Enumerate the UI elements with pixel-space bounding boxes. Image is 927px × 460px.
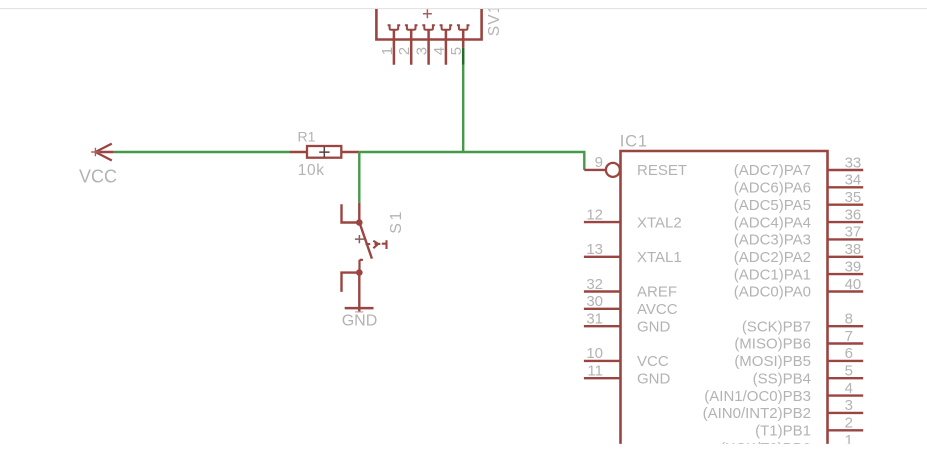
svg-text:AREF: AREF: [637, 284, 677, 301]
supply VCC pin: [95, 151, 113, 153]
wire junction to switch: [358, 152, 360, 203]
svg-text:10: 10: [586, 345, 603, 362]
IC1 pin 32 stub: [584, 290, 621, 292]
switch S1 moving terminal riser: [360, 260, 363, 273]
svg-text:34: 34: [845, 172, 862, 189]
svg-text:R1: R1: [298, 128, 316, 144]
IC1 pin 37 stub: [828, 238, 864, 240]
IC1 pin 38 stub: [828, 256, 864, 258]
IC1 pin 30 stub: [584, 308, 621, 310]
svg-text:(ADC3)PA3: (ADC3)PA3: [734, 232, 811, 249]
IC1 pin 9 inversion bubble: [606, 163, 620, 177]
svg-text:38: 38: [845, 241, 862, 258]
IC1 pin 9 RESET stub: [584, 169, 606, 171]
IC1 pin 39 stub: [828, 273, 864, 275]
IC1 pin 8 stub: [828, 325, 864, 327]
svg-text:GND: GND: [637, 318, 671, 335]
svg-text:3: 3: [845, 397, 853, 414]
svg-text:7: 7: [845, 328, 853, 345]
svg-text:13: 13: [586, 241, 603, 258]
svg-text:35: 35: [845, 189, 862, 206]
switch S1 bottom contact: [342, 273, 360, 292]
svg-text:VCC: VCC: [79, 167, 117, 187]
svg-text:GND: GND: [637, 370, 671, 387]
IC1 pin 1 stub (clipped): [828, 446, 864, 448]
svg-text:12: 12: [586, 206, 603, 223]
wire VCC to R1: [113, 151, 289, 153]
svg-text:1: 1: [845, 432, 853, 449]
svg-text:32: 32: [586, 276, 603, 293]
svg-text:VCC: VCC: [637, 353, 669, 370]
IC1 pin 12 stub: [584, 221, 621, 223]
connector pin 3 cup: [422, 25, 435, 29]
svg-text:(ADC7)PA7: (ADC7)PA7: [734, 162, 811, 179]
svg-text:GND: GND: [342, 313, 378, 330]
IC1 pin 33 stub: [828, 169, 864, 171]
supply VCC origin cross: [91, 148, 100, 157]
svg-text:XTAL2: XTAL2: [637, 214, 682, 231]
IC1 pin 3 stub: [828, 412, 864, 414]
switch S1 bottom junction dot: [356, 269, 363, 276]
svg-text:(XCK/T0)PB0: (XCK/T0)PB0: [720, 440, 811, 457]
svg-text:3: 3: [414, 47, 431, 55]
svg-text:(AIN0/INT2)PB2: (AIN0/INT2)PB2: [703, 405, 811, 422]
svg-text:39: 39: [845, 258, 862, 275]
resistor R1 origin cross: [319, 147, 329, 157]
svg-text:30: 30: [586, 293, 603, 310]
switch S1 lever: [360, 224, 372, 259]
svg-text:(SCK)PB7: (SCK)PB7: [742, 318, 811, 335]
IC1 pin 35 stub: [828, 203, 864, 205]
connector pin 5 cup: [457, 25, 470, 29]
connector pin 1 lead: [393, 30, 396, 65]
IC1 pin 13 stub: [584, 256, 621, 258]
svg-text:8: 8: [845, 311, 853, 328]
connector pin 5 lead: [462, 30, 465, 48]
svg-text:(ADC5)PA5: (ADC5)PA5: [734, 197, 811, 214]
switch S1 top junction dot: [356, 219, 363, 226]
connector pin 1 cup: [388, 25, 401, 29]
connector pin 4 lead: [445, 30, 448, 65]
IC1 pin 40 stub: [828, 290, 864, 292]
IC1 pin 31 stub: [584, 325, 621, 327]
svg-text:S1: S1: [388, 209, 405, 234]
IC1 body box: [619, 151, 829, 460]
svg-text:(ADC6)PA6: (ADC6)PA6: [734, 180, 811, 197]
switch S1 origin cross: [355, 235, 364, 243]
svg-text:(MOSI)PB5: (MOSI)PB5: [734, 353, 811, 370]
svg-text:(ADC2)PA2: (ADC2)PA2: [734, 249, 811, 266]
connector SV1 body: [375, 9, 483, 41]
svg-text:5: 5: [845, 363, 853, 380]
svg-text:(ADC4)PA4: (ADC4)PA4: [734, 214, 811, 231]
svg-text:6: 6: [845, 345, 853, 362]
svg-text:2: 2: [396, 47, 413, 55]
ground GND bar: [345, 307, 374, 310]
IC1 pin 10 stub: [584, 360, 621, 362]
svg-text:1: 1: [379, 47, 396, 55]
switch S1 top pin: [358, 203, 360, 223]
IC1 pin 4 stub: [828, 394, 864, 396]
svg-text:RESET: RESET: [637, 162, 687, 179]
ground GND origin cross: [355, 311, 363, 313]
connector SV1 origin cross: [423, 9, 432, 18]
svg-text:40: 40: [845, 276, 862, 293]
resistor R1 body: [307, 146, 341, 158]
IC1 pin 6 stub: [828, 360, 864, 362]
IC1 pin 5 stub: [828, 377, 864, 379]
svg-text:(AIN1/OC0)PB3: (AIN1/OC0)PB3: [704, 388, 811, 405]
IC1 pin 11 stub: [584, 377, 621, 379]
IC1 pin 34 stub: [828, 186, 864, 188]
connector pin 2 lead: [410, 30, 413, 65]
resistor R1 right pin: [341, 151, 359, 153]
resistor R1 left pin: [289, 151, 307, 153]
svg-text:(ADC0)PA0: (ADC0)PA0: [734, 284, 811, 301]
svg-text:XTAL1: XTAL1: [637, 249, 682, 266]
connector pin 4 cup: [440, 25, 453, 29]
svg-text:(MISO)PB6: (MISO)PB6: [734, 336, 811, 353]
svg-text:(T1)PB1: (T1)PB1: [755, 423, 811, 440]
switch S1 top contact: [342, 204, 360, 222]
svg-text:33: 33: [845, 154, 862, 171]
svg-text:37: 37: [845, 224, 862, 241]
IC1 pin 36 stub: [828, 221, 864, 223]
svg-text:36: 36: [845, 206, 862, 223]
connector pin 2 cup: [405, 25, 418, 29]
switch S1 bottom pin: [358, 273, 360, 313]
wire pin5 overlap dark segment: [462, 47, 465, 65]
svg-text:4: 4: [431, 47, 448, 55]
svg-text:AVCC: AVCC: [637, 301, 678, 318]
IC1 pin 7 stub: [828, 342, 864, 344]
svg-text:4: 4: [845, 380, 853, 397]
svg-text:11: 11: [587, 363, 603, 380]
svg-text:9: 9: [595, 154, 603, 171]
svg-text:(SS)PB4: (SS)PB4: [753, 370, 811, 387]
toolbar bottom border line: [0, 8, 927, 9]
connector pin 3 lead: [427, 30, 430, 65]
IC1 pin 2 stub: [828, 429, 864, 431]
switch S1 actuator: [366, 240, 387, 249]
wire pin5 to main horizontal: [462, 65, 464, 152]
supply VCC arrow: [95, 144, 111, 161]
svg-text:10k: 10k: [298, 162, 325, 179]
svg-text:IC1: IC1: [620, 132, 648, 150]
wire R1 to IC1 reset: [359, 152, 584, 170]
svg-text:(ADC1)PA1: (ADC1)PA1: [734, 266, 811, 283]
svg-text:31: 31: [586, 311, 603, 328]
svg-text:2: 2: [845, 415, 853, 432]
